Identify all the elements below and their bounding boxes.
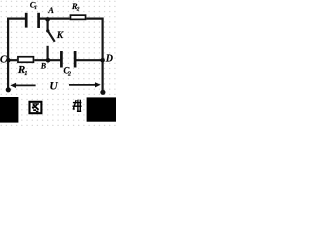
capacitor C1 bbox=[26, 13, 38, 28]
caption black bar left bbox=[0, 97, 18, 123]
wire: middle rail, R1 to C2 through node B bbox=[34, 59, 60, 61]
svg-text:2: 2 bbox=[67, 72, 71, 78]
arrow: voltage U right bbox=[69, 84, 96, 86]
svg-text:U: U bbox=[49, 80, 58, 92]
svg-text:1: 1 bbox=[34, 5, 37, 11]
wire: middle rail, node C to R1 bbox=[8, 59, 17, 61]
svg-text:A: A bbox=[47, 5, 54, 15]
svg-text:B: B bbox=[40, 62, 47, 71]
switch K bbox=[47, 19, 54, 60]
node B (junction) bbox=[46, 58, 51, 63]
resistor R1 bbox=[18, 57, 34, 63]
terminal bottom-left bbox=[6, 87, 11, 92]
node D (junction on right rail) bbox=[100, 58, 105, 63]
svg-text:1: 1 bbox=[24, 70, 27, 77]
wire: top-left segment and left rail bbox=[8, 19, 26, 90]
caption character: figure number glyph bbox=[73, 100, 82, 112]
capacitor C2 bbox=[61, 51, 75, 68]
svg-text:2: 2 bbox=[76, 6, 80, 12]
svg-text:K: K bbox=[56, 31, 64, 41]
wire: top segment between C1 and R2 through node A bbox=[40, 18, 70, 20]
svg-text:C: C bbox=[0, 55, 7, 66]
terminal bottom-right bbox=[100, 90, 105, 95]
node A (junction) bbox=[45, 17, 50, 22]
resistor R2 bbox=[70, 15, 85, 19]
caption black bar right bbox=[87, 97, 116, 121]
node C (junction on left rail) bbox=[6, 58, 11, 63]
label R1 bbox=[17, 64, 28, 77]
wire: top-right segment and right rail bbox=[86, 19, 102, 92]
label C1 bbox=[30, 0, 37, 11]
svg-text:D: D bbox=[105, 54, 113, 65]
label C2 bbox=[63, 65, 71, 77]
arrow: voltage U left bbox=[15, 84, 36, 86]
wire: middle rail, C2 to node D bbox=[76, 59, 103, 61]
caption character: tu (figure) bbox=[30, 102, 42, 113]
label R2 bbox=[71, 1, 80, 12]
